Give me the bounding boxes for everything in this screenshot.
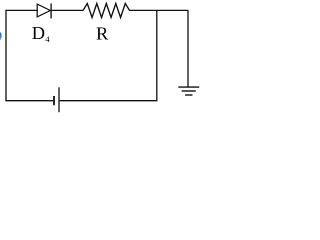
diode D4 (37, 3, 51, 18)
wire: top horizontal from left corner to diode anode (5, 9, 37, 11)
resistor R (83, 4, 130, 18)
battery B1 (54, 87, 59, 112)
svg-text:D: D (32, 23, 45, 43)
label D4 (32, 23, 51, 44)
wire: middle vertical branch (junction at top to bottom wire) (156, 10, 158, 100)
svg-text:4: 4 (45, 35, 50, 44)
label R (96, 23, 109, 43)
wire: left vertical (top-left corner down to bottom-left corner) (5, 10, 7, 100)
ground (178, 87, 199, 95)
svg-text:R: R (96, 23, 109, 43)
wire: bottom horizontal from battery to bottom-right corner (60, 100, 158, 102)
wire: resistor to top-right corner (130, 9, 189, 11)
wire: diode cathode to resistor (52, 9, 83, 11)
wire: bottom horizontal from left corner to battery (5, 100, 53, 102)
wire: right vertical down to ground (187, 10, 189, 87)
decorative clipped blue bullet at left edge (0, 32, 2, 40)
